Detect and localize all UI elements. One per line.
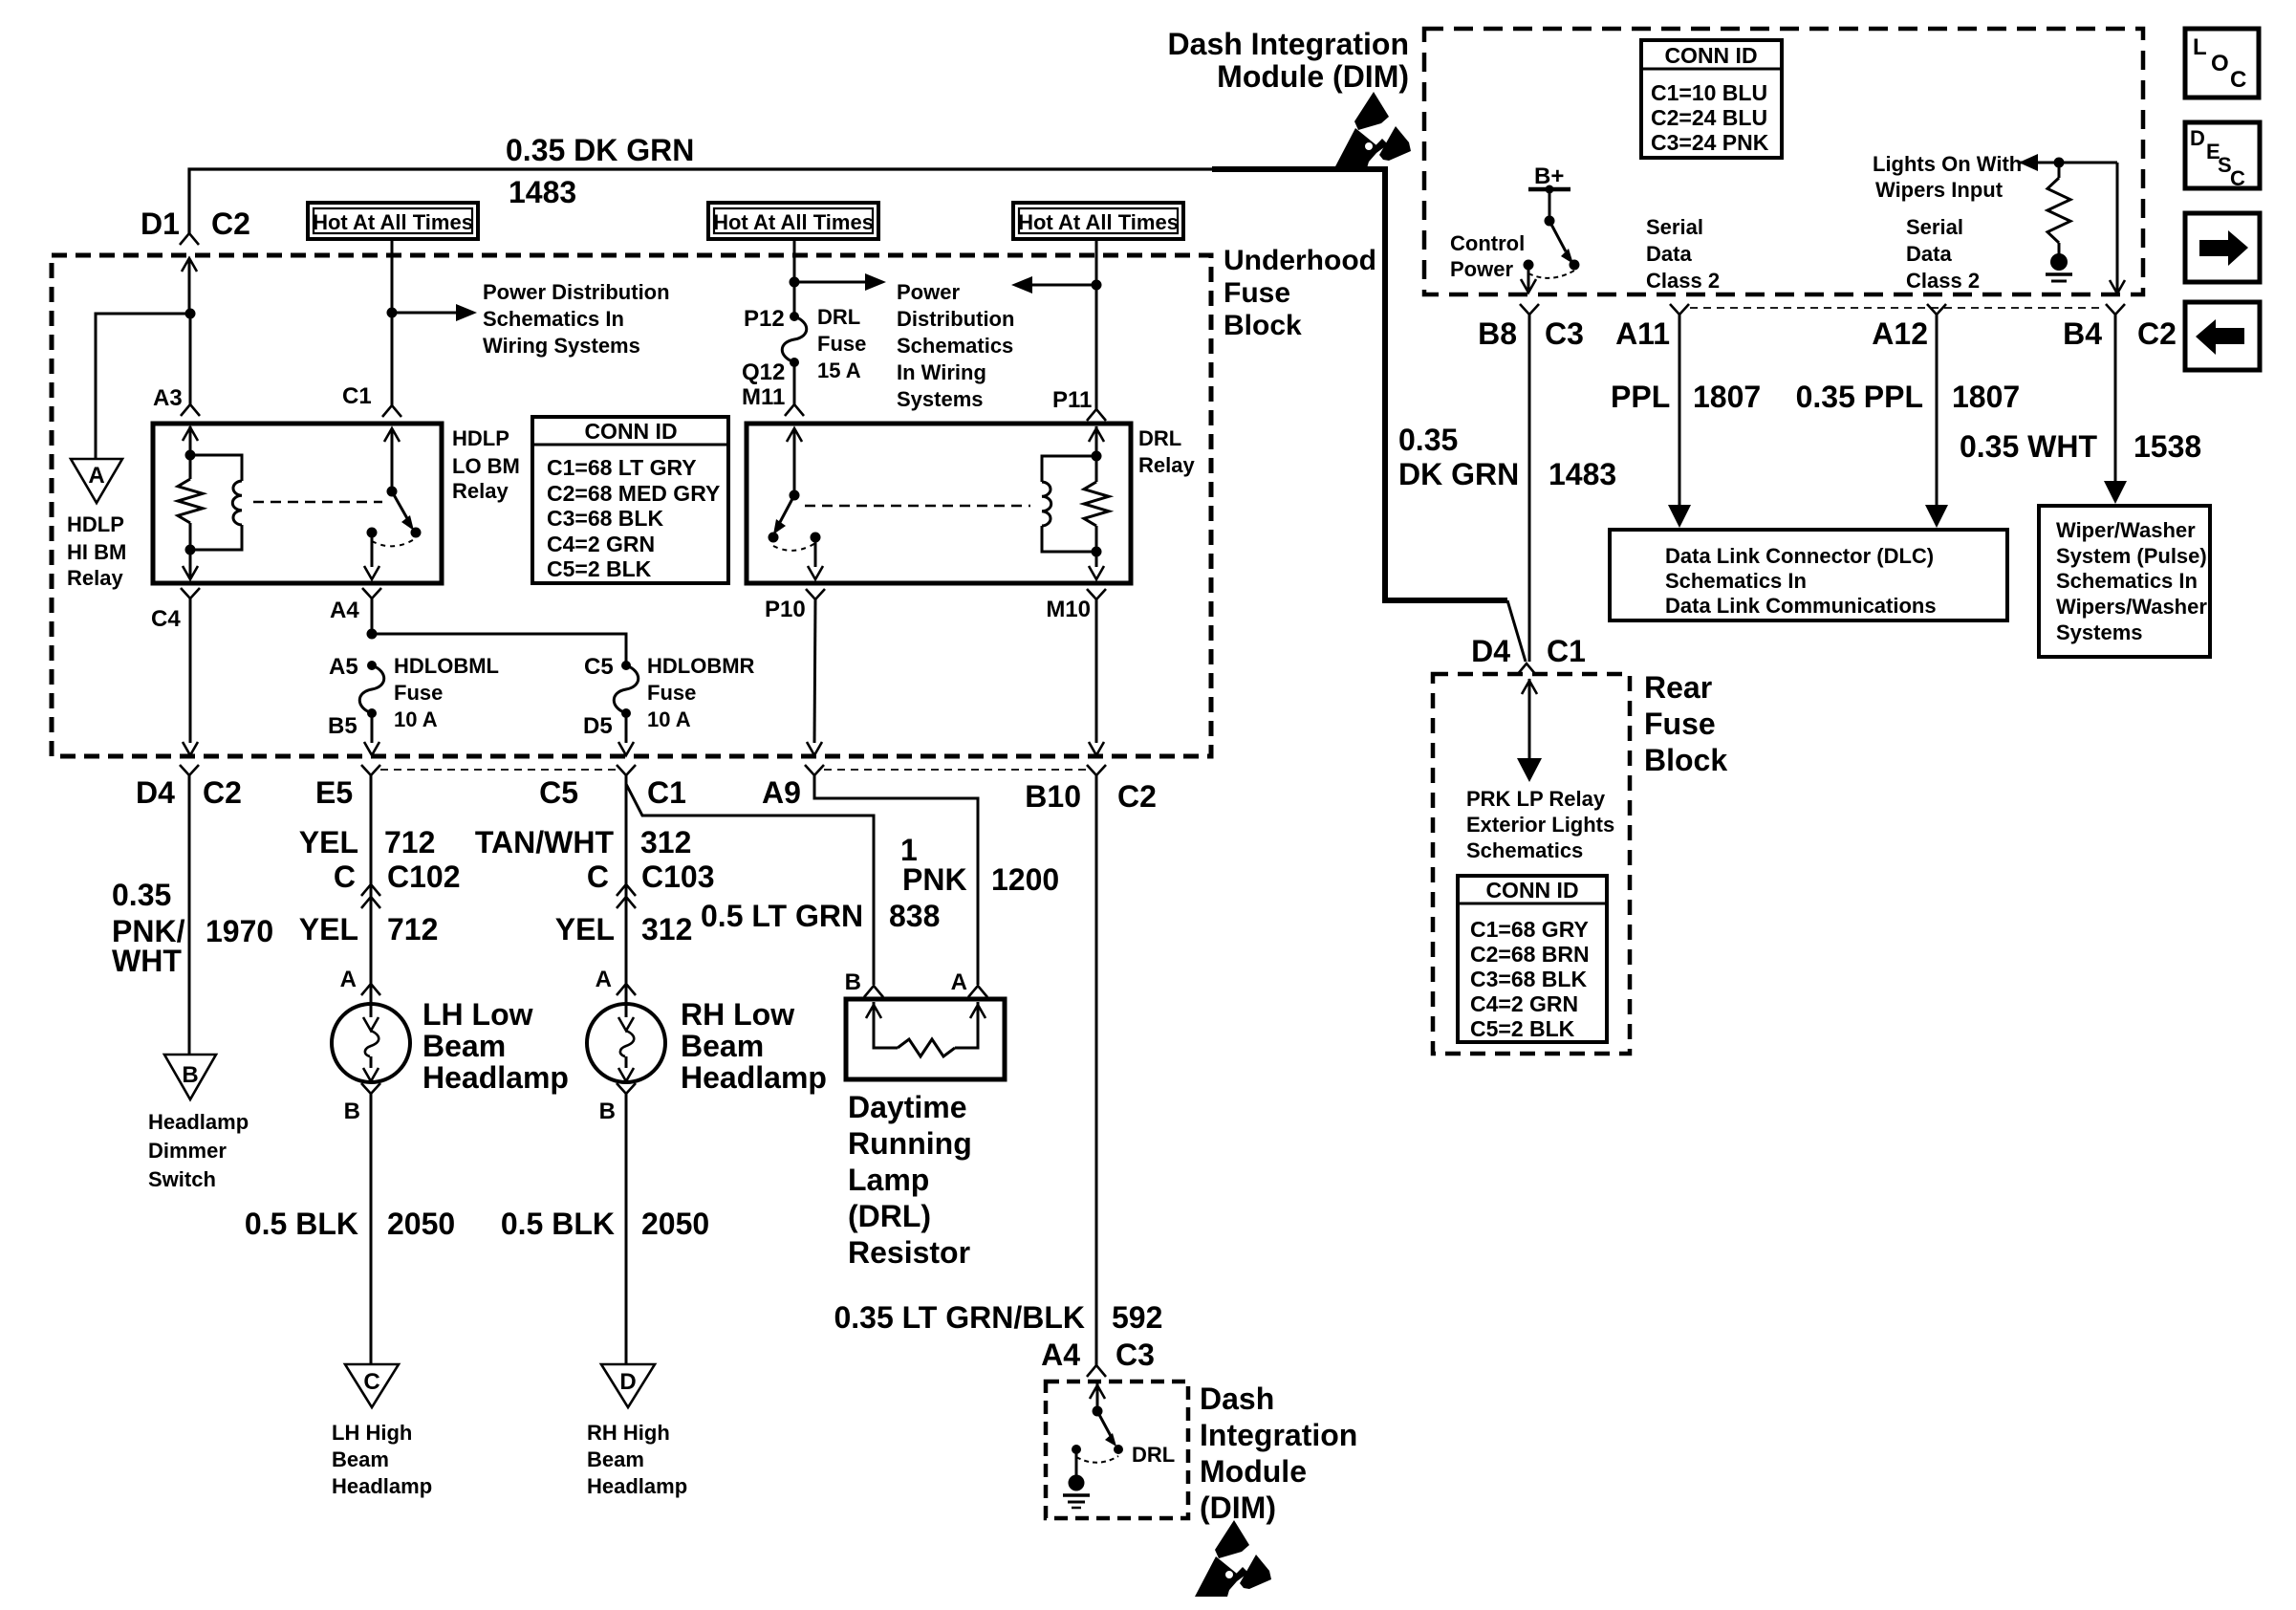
svg-text:15 A: 15 A xyxy=(817,359,861,382)
DIM DRL switch arm xyxy=(1097,1411,1111,1436)
svg-text:0.35 LT GRN/BLK: 0.35 LT GRN/BLK xyxy=(834,1300,1085,1335)
relay1 actuation dashed link xyxy=(253,501,382,503)
svg-text:C4: C4 xyxy=(151,606,181,632)
svg-text:CONN ID: CONN ID xyxy=(1485,878,1578,903)
svg-text:HDLP: HDLP xyxy=(452,426,509,450)
wire 1483 DK GRN from B8 to rear fuse block xyxy=(1528,315,1531,662)
svg-text:Data Link Communications: Data Link Communications xyxy=(1665,594,1937,618)
svg-text:Hot At All Times: Hot At All Times xyxy=(313,210,473,234)
svg-text:C2: C2 xyxy=(1117,779,1157,814)
svg-text:0.35 DK GRN: 0.35 DK GRN xyxy=(506,133,694,167)
svg-text:Systems: Systems xyxy=(897,387,984,411)
relay1 coil xyxy=(190,455,242,481)
CONN ID table (DIM) xyxy=(1641,40,1782,158)
svg-text:M10: M10 xyxy=(1046,597,1091,622)
Underhood Fuse Block dashed boundary xyxy=(52,255,1211,756)
svg-text:Schematics: Schematics xyxy=(1466,838,1583,862)
svg-text:TAN/WHT: TAN/WHT xyxy=(475,825,615,859)
wire to B4 xyxy=(2116,163,2119,280)
relay1 switch common from C1 xyxy=(391,428,394,491)
svg-text:1807: 1807 xyxy=(1952,380,2020,414)
svg-text:C2=68 MED GRY: C2=68 MED GRY xyxy=(547,481,720,506)
svg-text:P10: P10 xyxy=(765,597,806,622)
svg-text:B4: B4 xyxy=(2063,316,2102,351)
svg-text:0.35 PPL: 0.35 PPL xyxy=(1796,380,1923,414)
arrow to power distribution note 2 xyxy=(794,281,865,284)
svg-text:Dimmer: Dimmer xyxy=(148,1139,227,1163)
ESD symbol bottom xyxy=(1195,1520,1271,1597)
fuse DRL 15A with terminals P12 Q12 xyxy=(790,312,799,321)
svg-text:Data: Data xyxy=(1906,242,1952,266)
junction node on DRL fuse wire xyxy=(790,277,800,288)
svg-text:1538: 1538 xyxy=(2134,429,2201,464)
svg-text:YEL: YEL xyxy=(299,912,358,946)
svg-text:0.5 LT GRN: 0.5 LT GRN xyxy=(701,899,863,933)
lamp RH Low Beam Headlamp xyxy=(587,1004,665,1082)
svg-text:A: A xyxy=(951,969,967,995)
svg-text:A4: A4 xyxy=(330,598,359,623)
connector B8/C3 below DIM xyxy=(1520,304,1539,315)
svg-text:Wiring Systems: Wiring Systems xyxy=(483,334,640,358)
relay1 resistor (parallel with coil) xyxy=(189,455,192,479)
Hot At All Times box 1 xyxy=(308,203,478,239)
off-page triangle C (LH High Beam Headlamp) xyxy=(345,1364,399,1407)
connector E5 below fuse block xyxy=(361,765,380,775)
svg-text:B5: B5 xyxy=(328,713,357,739)
wire from Hot box 3 to DRL relay P11 xyxy=(1095,239,1098,409)
Data Link Connector note box xyxy=(1610,530,2007,620)
svg-text:Exterior Lights: Exterior Lights xyxy=(1466,813,1614,837)
svg-text:HI BM: HI BM xyxy=(67,540,126,564)
DIM DRL switch input xyxy=(1096,1383,1099,1411)
CONN ID table (rear fuse block) xyxy=(1458,876,1607,1042)
Hot At All Times box 3 xyxy=(1013,203,1183,239)
svg-text:L: L xyxy=(2193,34,2207,60)
connector B10/C2 below fuse block xyxy=(1087,765,1106,775)
svg-text:PNK: PNK xyxy=(902,862,967,897)
svg-text:WHT: WHT xyxy=(112,944,182,978)
connector A4 below relay1 xyxy=(362,588,381,598)
svg-text:YEL: YEL xyxy=(299,825,358,859)
svg-text:C1=68 LT GRY: C1=68 LT GRY xyxy=(547,455,697,480)
svg-text:1483: 1483 xyxy=(509,175,576,209)
svg-text:CONN ID: CONN ID xyxy=(584,419,677,444)
svg-text:B: B xyxy=(845,969,861,995)
svg-text:Class 2: Class 2 xyxy=(1646,269,1720,293)
svg-text:Relay: Relay xyxy=(67,566,123,590)
svg-text:Control: Control xyxy=(1450,231,1525,255)
svg-text:B: B xyxy=(182,1062,198,1088)
svg-text:Block: Block xyxy=(1644,743,1727,777)
svg-text:Schematics In: Schematics In xyxy=(2056,569,2198,593)
connector grouping dashed line A11-B4 xyxy=(1690,307,2105,309)
wire 1 PNK 1200 from A9 to DRL resistor A xyxy=(814,775,978,985)
svg-text:0.35: 0.35 xyxy=(112,878,171,912)
svg-text:Power Distribution: Power Distribution xyxy=(483,280,670,304)
wire B5 to E5 xyxy=(371,713,374,743)
svg-text:D4: D4 xyxy=(1471,634,1510,668)
svg-text:Beam: Beam xyxy=(587,1447,644,1471)
svg-text:DRL: DRL xyxy=(1132,1443,1175,1467)
svg-text:P11: P11 xyxy=(1052,387,1092,413)
arrow to power distribution note 1 xyxy=(392,312,456,315)
relay1 switch contact to A4 xyxy=(367,528,378,538)
svg-text:C5: C5 xyxy=(539,775,578,810)
left arrow nav box xyxy=(2185,302,2260,370)
relay2 coil feed from P11 xyxy=(1095,426,1098,456)
ESD symbol top xyxy=(1334,92,1411,168)
svg-text:D4: D4 xyxy=(136,775,175,810)
svg-text:Lamp: Lamp xyxy=(848,1163,929,1197)
rear fuse block feed wire xyxy=(1528,679,1531,758)
svg-text:Wiper/Washer: Wiper/Washer xyxy=(2056,518,2196,542)
junction node on C1 wire xyxy=(387,308,398,318)
svg-text:C4=2 GRN: C4=2 GRN xyxy=(547,532,655,556)
connector A12 below DIM xyxy=(1927,304,1946,315)
svg-text:C5: C5 xyxy=(584,654,614,680)
svg-text:P12: P12 xyxy=(744,306,785,332)
LOC nav box xyxy=(2185,29,2259,98)
svg-text:2050: 2050 xyxy=(641,1207,709,1241)
svg-text:LO BM: LO BM xyxy=(452,454,520,478)
svg-text:Power: Power xyxy=(897,280,960,304)
svg-text:A12: A12 xyxy=(1872,316,1928,351)
wire 1970 PNK/WHT to dimmer switch xyxy=(188,775,191,1055)
svg-text:312: 312 xyxy=(640,825,691,859)
relay U2 DRL Relay box xyxy=(747,424,1131,583)
Dash Integration Module (DIM) bottom dashed box xyxy=(1046,1382,1188,1518)
relay1 coil output wire to C4 xyxy=(189,550,192,567)
svg-text:1970: 1970 xyxy=(206,914,273,948)
fuse HDLOBMR 10A terminals C5 D5 xyxy=(621,661,631,670)
svg-text:1200: 1200 xyxy=(991,862,1059,897)
svg-text:C: C xyxy=(587,859,609,894)
Dash Integration Module (DIM) top dashed box xyxy=(1424,29,2143,294)
svg-text:C2: C2 xyxy=(211,207,250,241)
svg-text:312: 312 xyxy=(641,912,692,946)
svg-text:PRK LP Relay: PRK LP Relay xyxy=(1466,787,1606,811)
connector grouping dashed line E5-C5 xyxy=(380,769,617,771)
off-page triangle A (HDLP HI BM Relay) xyxy=(71,459,122,503)
svg-text:YEL: YEL xyxy=(555,912,615,946)
svg-text:C1: C1 xyxy=(647,775,686,810)
relay U1 HDLP LO BM Relay box xyxy=(153,424,442,583)
svg-text:E5: E5 xyxy=(315,775,353,810)
svg-text:Hot At All Times: Hot At All Times xyxy=(713,210,874,234)
svg-text:Relay: Relay xyxy=(452,479,509,503)
svg-text:B: B xyxy=(344,1099,360,1124)
svg-text:838: 838 xyxy=(889,899,940,933)
svg-text:Dash Integration: Dash Integration xyxy=(1168,27,1409,61)
svg-text:1483: 1483 xyxy=(1549,457,1616,491)
svg-text:A4: A4 xyxy=(1041,1338,1080,1372)
svg-text:Lights On With: Lights On With xyxy=(1873,152,2022,176)
svg-text:1807: 1807 xyxy=(1693,380,1761,414)
svg-text:Serial: Serial xyxy=(1906,215,1963,239)
connector A9 below fuse block xyxy=(805,765,824,775)
svg-text:Schematics In: Schematics In xyxy=(1665,569,1807,593)
svg-text:C102: C102 xyxy=(387,859,461,894)
wire D5 down xyxy=(625,713,628,743)
svg-text:Hot At All Times: Hot At All Times xyxy=(1018,210,1179,234)
wire C1 to RH low beam headlamp xyxy=(625,775,628,1004)
wire 0.35 LT GRN/BLK 592 xyxy=(1095,775,1098,1365)
wire E5 to LH low beam headlamp xyxy=(370,775,373,1004)
resistor R1 Daytime Running Lamp (DRL) Resistor box xyxy=(846,999,1005,1079)
svg-text:Distribution: Distribution xyxy=(897,307,1014,331)
connector M10 below relay2 xyxy=(1087,589,1106,599)
off-page triangle B (Headlamp Dimmer Switch) xyxy=(164,1055,216,1099)
wire 0.35 WHT 1538 to wiper system xyxy=(2114,315,2117,481)
svg-text:Running: Running xyxy=(848,1126,972,1161)
Rear Fuse Block dashed box xyxy=(1433,674,1630,1054)
svg-text:Headlamp: Headlamp xyxy=(422,1060,569,1095)
relay2 output wire to M10 xyxy=(1095,552,1098,567)
svg-text:Serial: Serial xyxy=(1646,215,1703,239)
off-page triangle D (RH High Beam Headlamp) xyxy=(601,1364,655,1407)
svg-text:DK GRN: DK GRN xyxy=(1398,457,1519,491)
svg-text:Beam: Beam xyxy=(422,1029,506,1063)
svg-text:0.35: 0.35 xyxy=(1398,423,1458,457)
svg-text:Fuse: Fuse xyxy=(1224,277,1290,309)
wire M11 into DRL relay xyxy=(793,362,796,404)
svg-text:C2=68 BRN: C2=68 BRN xyxy=(1470,942,1590,967)
control power output wire xyxy=(1527,265,1530,279)
svg-text:0.5 BLK: 0.5 BLK xyxy=(501,1207,615,1241)
svg-text:Fuse: Fuse xyxy=(817,332,866,356)
svg-text:0.5 BLK: 0.5 BLK xyxy=(245,1207,358,1241)
svg-text:Underhood: Underhood xyxy=(1224,245,1376,276)
relay1 switch arm xyxy=(392,491,408,520)
svg-text:712: 712 xyxy=(384,825,435,859)
svg-text:C: C xyxy=(334,859,356,894)
svg-text:C2=24 BLU: C2=24 BLU xyxy=(1651,105,1767,130)
wire RH lamp to RH high beam triangle xyxy=(625,1094,628,1364)
svg-text:C1=68 GRY: C1=68 GRY xyxy=(1470,917,1589,942)
connector grouping dashed line A9-B10 xyxy=(824,769,1087,771)
junction node on P11 wire xyxy=(1092,280,1102,291)
node A4/A5 junction xyxy=(367,629,378,640)
svg-text:C5=2 BLK: C5=2 BLK xyxy=(1470,1016,1575,1041)
right arrow nav box xyxy=(2185,213,2260,282)
svg-text:Beam: Beam xyxy=(681,1029,764,1063)
DESC nav box xyxy=(2185,122,2260,188)
svg-text:712: 712 xyxy=(387,912,438,946)
svg-text:Data Link Connector (DLC): Data Link Connector (DLC) xyxy=(1665,544,1934,568)
svg-text:Rear: Rear xyxy=(1644,670,1712,705)
svg-text:C3=24 PNK: C3=24 PNK xyxy=(1651,130,1769,155)
Hot At All Times box 2 xyxy=(708,203,878,239)
resistor to ground (wipers input) xyxy=(2047,178,2070,243)
svg-text:C1=10 BLU: C1=10 BLU xyxy=(1651,80,1767,105)
svg-text:Fuse: Fuse xyxy=(1644,707,1716,741)
Wiper/Washer system note box xyxy=(2039,506,2210,657)
wire branch A4 junction to C5 fuse xyxy=(372,634,626,665)
svg-text:D1: D1 xyxy=(141,207,180,241)
connector P10 below relay2 xyxy=(806,589,825,599)
svg-text:Module (DIM): Module (DIM) xyxy=(1217,59,1409,94)
relay1 coil feed wire (A3 side) xyxy=(189,426,192,455)
svg-text:Switch: Switch xyxy=(148,1167,216,1191)
svg-text:Fuse: Fuse xyxy=(394,681,443,705)
svg-text:D: D xyxy=(2190,126,2205,150)
wire LH lamp to LH high beam triangle xyxy=(370,1094,373,1364)
connector B4/C2 below DIM xyxy=(2106,304,2125,315)
svg-text:A5: A5 xyxy=(329,654,358,680)
svg-text:Integration: Integration xyxy=(1200,1418,1357,1452)
relay2 switch contact to P10 xyxy=(811,533,821,543)
svg-text:2050: 2050 xyxy=(387,1207,455,1241)
wire 0.5 LT GRN 838 from C1 to DRL resistor B xyxy=(626,784,874,985)
svg-text:C4=2 GRN: C4=2 GRN xyxy=(1470,991,1578,1016)
svg-text:Headlamp: Headlamp xyxy=(681,1060,827,1095)
svg-text:Data: Data xyxy=(1646,242,1692,266)
svg-text:DRL: DRL xyxy=(817,305,860,329)
svg-text:Wipers Input: Wipers Input xyxy=(1875,178,2004,202)
svg-text:C: C xyxy=(2230,166,2245,190)
svg-text:HDLP: HDLP xyxy=(67,512,124,536)
connector C4 below relay1 xyxy=(181,588,200,598)
wire branch to HDLP HI BM relay reference xyxy=(96,314,190,459)
svg-text:Systems: Systems xyxy=(2056,620,2143,644)
svg-text:Power: Power xyxy=(1450,257,1513,281)
wire 0.35 DK GRN 1483 main feed xyxy=(189,169,1214,233)
wire from Hot box 1 to HDLP LO BM relay C1 xyxy=(391,239,394,405)
svg-text:592: 592 xyxy=(1112,1300,1162,1335)
svg-text:C: C xyxy=(2230,67,2246,93)
CONN ID table (underhood fuse block) xyxy=(532,417,728,583)
svg-text:HDLOBML: HDLOBML xyxy=(394,654,499,678)
svg-text:10 A: 10 A xyxy=(647,707,691,731)
svg-text:Schematics: Schematics xyxy=(897,334,1013,358)
svg-text:HDLOBMR: HDLOBMR xyxy=(647,654,755,678)
svg-text:C3=68 BLK: C3=68 BLK xyxy=(1470,967,1587,991)
svg-text:In Wiring: In Wiring xyxy=(897,360,986,384)
svg-text:Fuse: Fuse xyxy=(647,681,696,705)
svg-text:C2: C2 xyxy=(203,775,242,810)
svg-text:RH High: RH High xyxy=(587,1421,670,1445)
svg-text:DRL: DRL xyxy=(1138,426,1181,450)
wire 0.35 PPL 1807 to DLC xyxy=(1936,315,1939,505)
svg-text:LH Low: LH Low xyxy=(422,997,533,1032)
ground in DIM xyxy=(1075,1449,1078,1477)
svg-text:B: B xyxy=(599,1099,616,1124)
svg-text:Module: Module xyxy=(1200,1454,1307,1489)
svg-text:0.35 WHT: 0.35 WHT xyxy=(1960,429,2097,464)
svg-text:10 A: 10 A xyxy=(394,707,438,731)
svg-text:(DIM): (DIM) xyxy=(1200,1490,1276,1525)
svg-text:C3: C3 xyxy=(1545,316,1584,351)
svg-text:C: C xyxy=(363,1369,379,1395)
svg-text:Relay: Relay xyxy=(1138,453,1195,477)
svg-text:M11: M11 xyxy=(742,384,785,410)
connector A11 below DIM xyxy=(1670,304,1689,315)
svg-text:Daytime: Daytime xyxy=(848,1090,967,1124)
wire from Hot box 2 to DRL fuse xyxy=(793,239,796,316)
svg-text:B10: B10 xyxy=(1025,779,1081,814)
svg-text:C3=68 BLK: C3=68 BLK xyxy=(547,506,663,531)
svg-text:Schematics In: Schematics In xyxy=(483,307,624,331)
svg-text:Headlamp: Headlamp xyxy=(587,1474,687,1498)
svg-text:Resistor: Resistor xyxy=(848,1235,970,1270)
lamp LH Low Beam Headlamp xyxy=(332,1004,410,1082)
svg-text:LH High: LH High xyxy=(332,1421,412,1445)
node A3 branch junction xyxy=(185,309,196,319)
svg-text:A11: A11 xyxy=(1615,316,1670,351)
svg-text:Headlamp: Headlamp xyxy=(332,1474,432,1498)
connector C5/C1 below fuse block xyxy=(617,765,636,775)
svg-text:C2: C2 xyxy=(2137,316,2177,351)
svg-text:C1: C1 xyxy=(1547,634,1586,668)
svg-text:D5: D5 xyxy=(583,713,613,739)
svg-text:Block: Block xyxy=(1224,310,1302,341)
svg-text:(DRL): (DRL) xyxy=(848,1199,931,1233)
relay2 coil xyxy=(1042,456,1096,482)
svg-text:Wipers/Washer: Wipers/Washer xyxy=(2056,595,2207,619)
svg-text:A: A xyxy=(340,967,357,992)
svg-text:C1: C1 xyxy=(342,383,372,409)
svg-text:Q12: Q12 xyxy=(742,359,785,385)
svg-text:A9: A9 xyxy=(762,775,801,810)
svg-text:Headlamp: Headlamp xyxy=(148,1110,249,1134)
svg-text:Class 2: Class 2 xyxy=(1906,269,1980,293)
svg-text:A3: A3 xyxy=(153,385,183,411)
wire PPL 1807 to DLC xyxy=(1679,315,1681,505)
connector D4/C2 below fuse block xyxy=(180,765,199,775)
svg-text:RH Low: RH Low xyxy=(681,997,794,1032)
svg-text:C5=2 BLK: C5=2 BLK xyxy=(547,556,652,581)
wire A3 into relay xyxy=(189,314,192,404)
control power switch xyxy=(1549,189,1551,221)
svg-text:B8: B8 xyxy=(1478,316,1517,351)
svg-text:Beam: Beam xyxy=(332,1447,389,1471)
relay2 switch arm xyxy=(779,495,794,524)
svg-text:PPL: PPL xyxy=(1611,380,1670,414)
svg-text:CONN ID: CONN ID xyxy=(1664,43,1757,68)
svg-text:O: O xyxy=(2211,51,2229,76)
relay2 actuation dashed link xyxy=(805,505,1030,507)
relay2 resistor xyxy=(1095,456,1098,482)
svg-text:A: A xyxy=(88,463,104,489)
arrow from P11 wire to note 2 xyxy=(1032,284,1096,287)
lights on with wipers input arrow and wire xyxy=(2019,154,2038,171)
relay2 switch common from M11 xyxy=(793,428,796,495)
svg-text:C103: C103 xyxy=(641,859,715,894)
fuse HDLOBML 10A terminals A5 B5 xyxy=(367,661,377,670)
svg-text:Dash: Dash xyxy=(1200,1382,1274,1416)
svg-text:A: A xyxy=(596,967,612,992)
svg-text:D: D xyxy=(619,1369,636,1395)
svg-text:System (Pulse): System (Pulse) xyxy=(2056,544,2207,568)
svg-text:C3: C3 xyxy=(1116,1338,1155,1372)
DIM switch contact to ground xyxy=(1072,1445,1081,1454)
